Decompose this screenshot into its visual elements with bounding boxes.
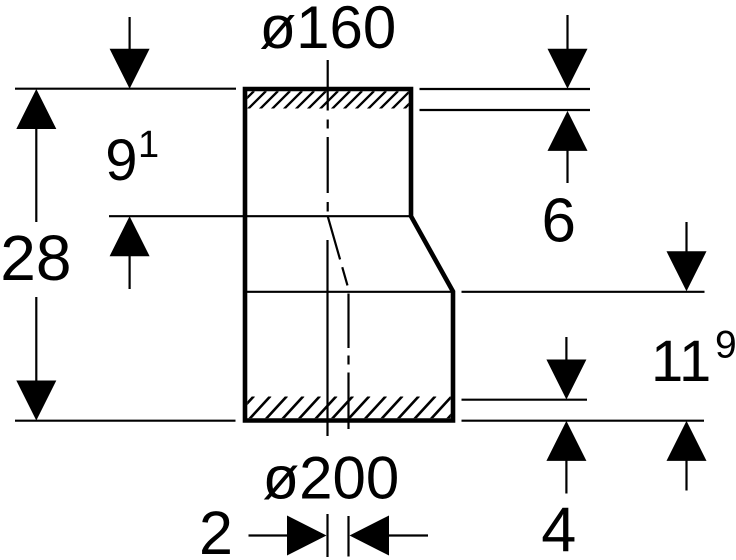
svg-text:2: 2 bbox=[199, 499, 233, 560]
svg-text:ø200: ø200 bbox=[263, 445, 400, 512]
svg-text:28: 28 bbox=[0, 222, 71, 294]
svg-text:4: 4 bbox=[541, 496, 576, 560]
svg-text:ø160: ø160 bbox=[260, 0, 397, 61]
svg-text:9: 9 bbox=[715, 324, 736, 367]
svg-text:11: 11 bbox=[651, 329, 711, 394]
svg-text:1: 1 bbox=[138, 124, 159, 166]
svg-text:9: 9 bbox=[105, 128, 137, 193]
svg-text:6: 6 bbox=[542, 187, 576, 256]
